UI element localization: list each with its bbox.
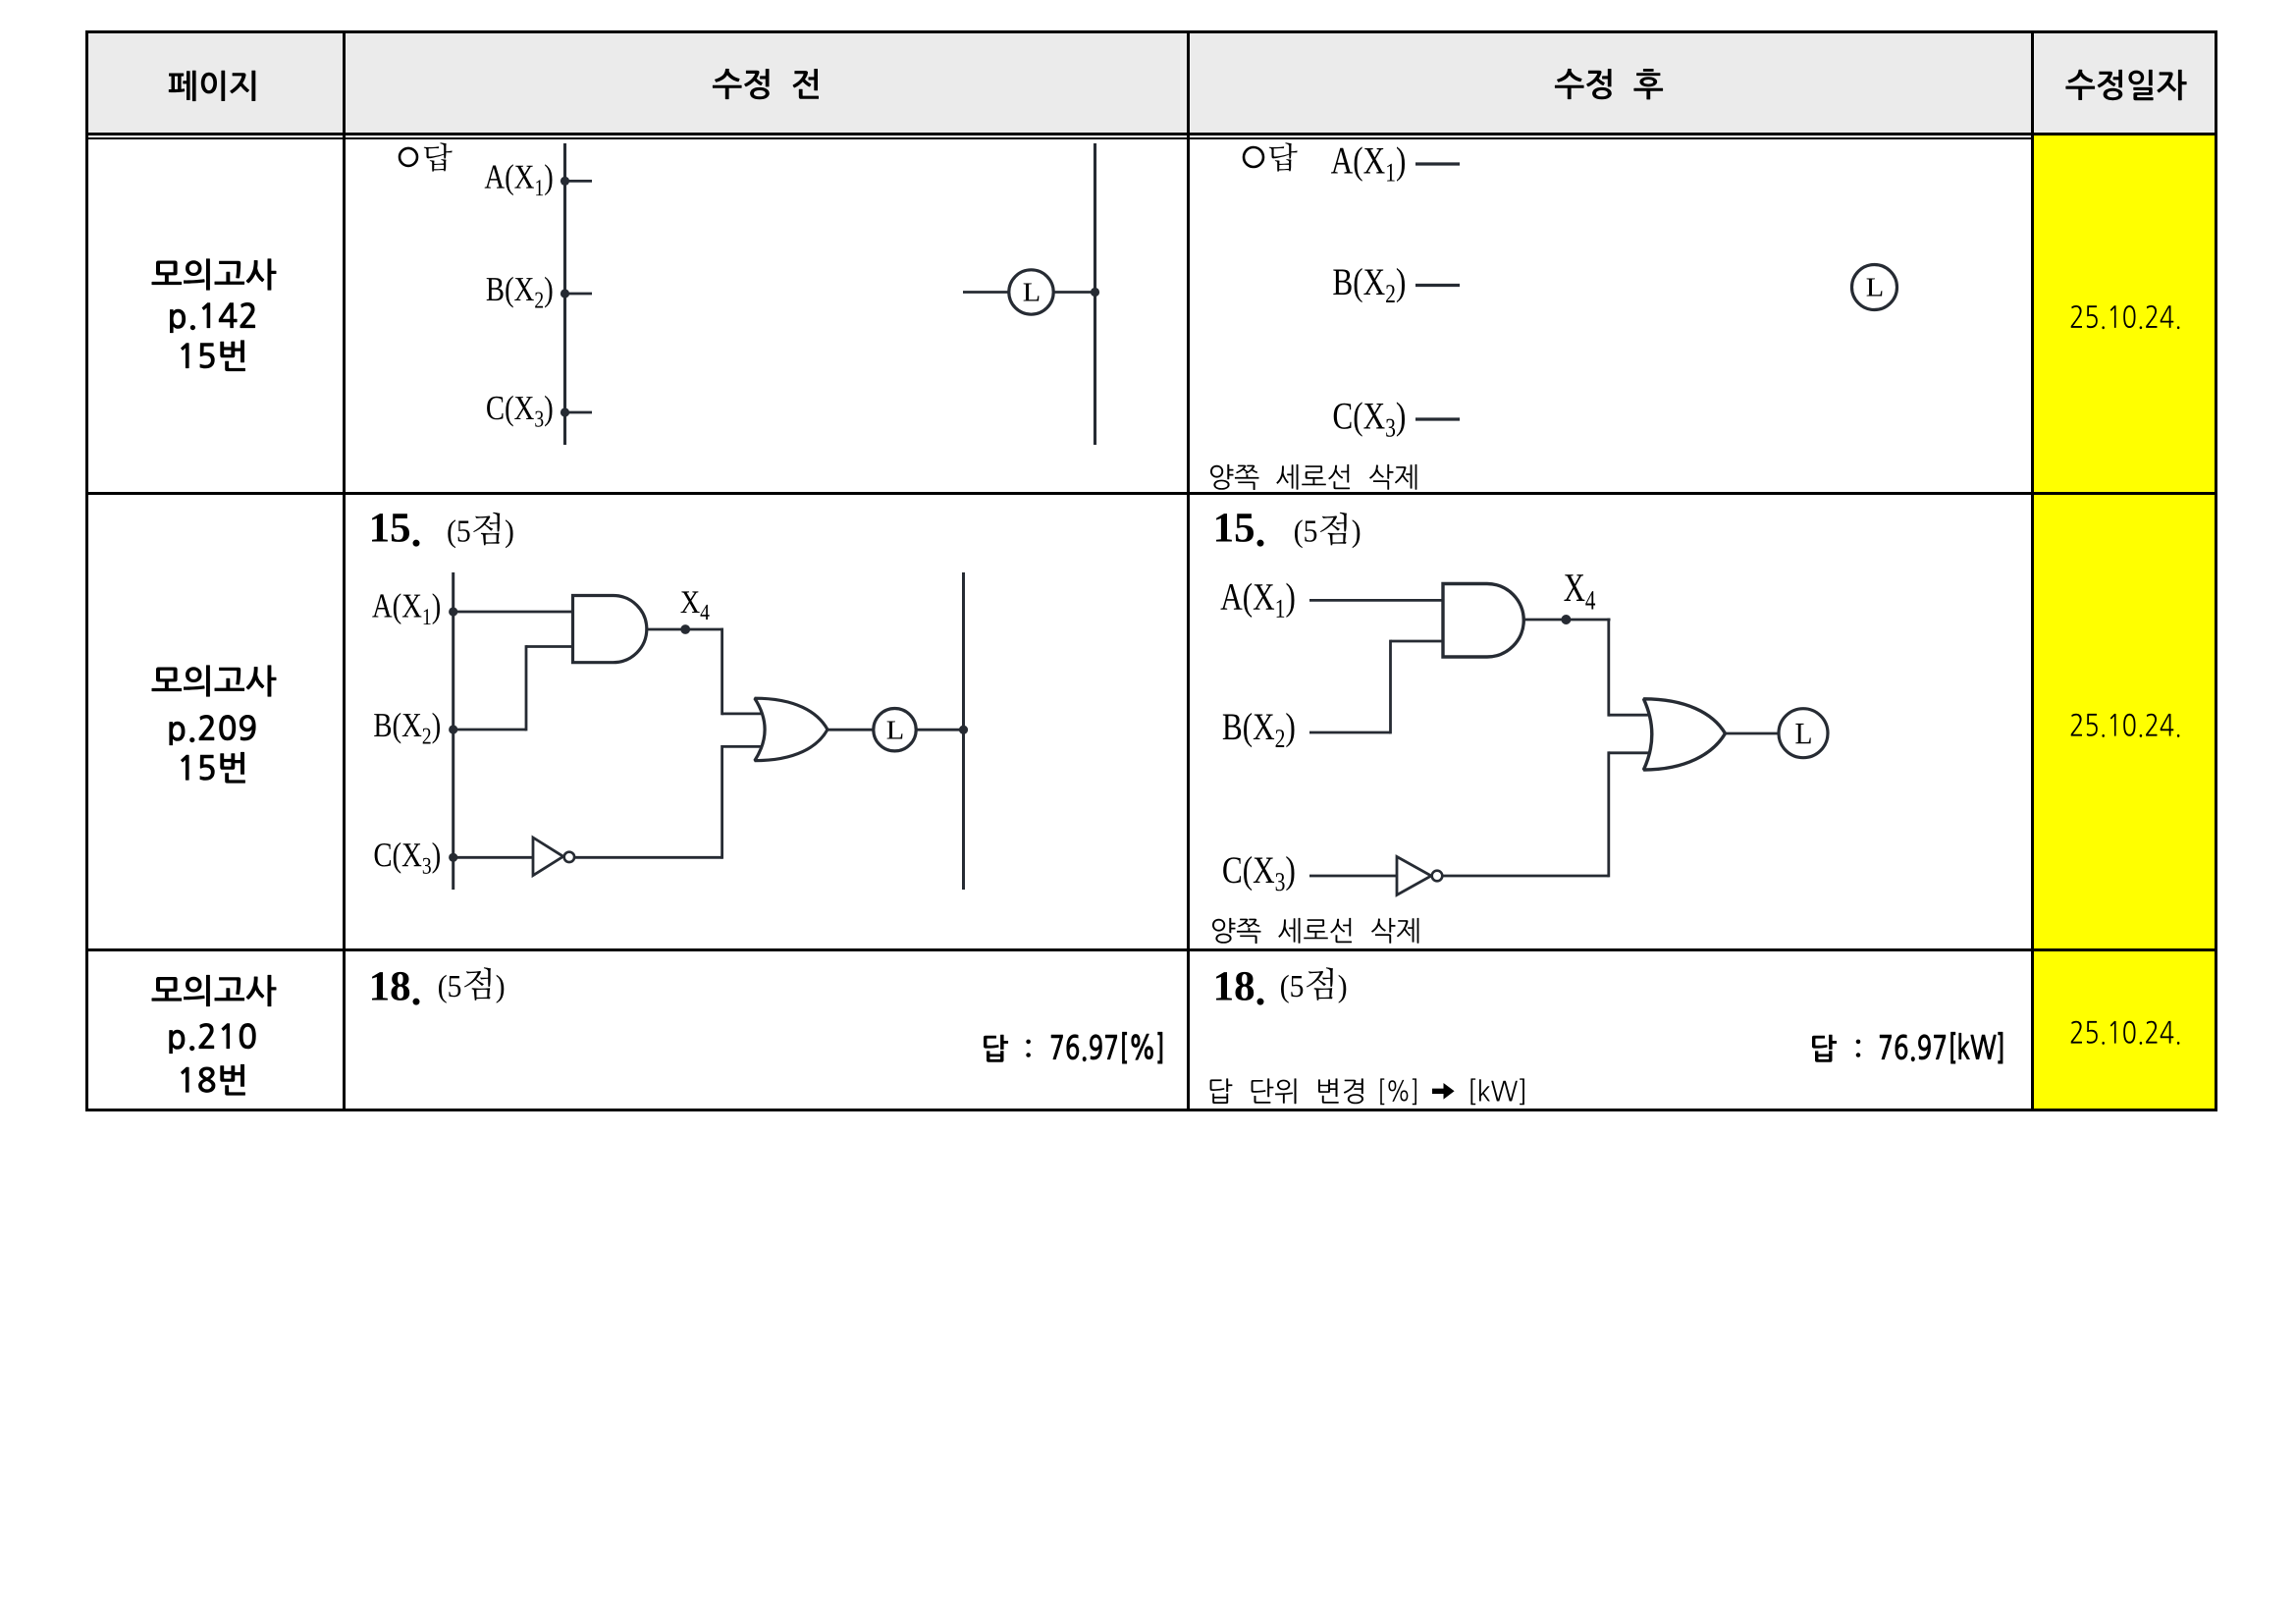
AND gate U1: [573, 596, 647, 663]
table bottom border: [85, 1109, 2217, 1111]
input label A(X1): [1221, 583, 1295, 618]
input label B(X2): [1333, 268, 1405, 302]
junction dot at right bus: [959, 726, 968, 734]
correction date 25.10.24.: [2071, 714, 2180, 737]
input label C(X3): [375, 842, 440, 874]
node C(X3) junction dot: [449, 853, 457, 862]
correction date 25.10.24.: [2071, 1021, 2180, 1045]
lamp letter L: [887, 722, 903, 739]
input label A(X1): [1331, 146, 1405, 181]
node X4 junction dot: [1561, 615, 1571, 624]
wire OR output to lamp: [1726, 732, 1780, 735]
note unit [%]: [1380, 1078, 1416, 1105]
header fill: [85, 30, 2217, 133]
header bottom double line b: [85, 137, 2034, 139]
contact label B(X2): [487, 277, 553, 308]
answer value 76.97[%]: [1051, 1032, 1163, 1064]
wire B vertical riser: [1389, 640, 1392, 734]
right bus line: [962, 572, 965, 890]
row label 모의고사: [152, 975, 277, 1006]
NOT gate U3: [1397, 857, 1431, 895]
lamp L circle: [1852, 265, 1897, 310]
OR gate U2: [755, 698, 828, 761]
wire B(X2) dash: [1415, 284, 1460, 287]
column divider 2: [1187, 30, 1190, 1109]
wire B vertical riser: [525, 645, 528, 731]
wire OR bottom input stub: [722, 745, 763, 748]
lamp letter L: [1795, 724, 1810, 743]
answer bullet text 답: [424, 142, 453, 172]
wire OR bottom input stub: [1609, 751, 1650, 754]
wire lamp right: [1052, 291, 1094, 294]
wire AND output: [1523, 619, 1568, 622]
wire contact B stub: [565, 293, 593, 296]
node C(X3) junction dot: [561, 407, 569, 416]
wire B horizontal: [454, 729, 526, 731]
lamp L circle: [1009, 270, 1053, 314]
wire riser NOT to OR bottom input: [721, 745, 723, 859]
problem number 18.: [372, 972, 420, 1005]
note 양쪽 세로선 삭제: [1212, 918, 1418, 944]
wire X4 drop to OR top input: [721, 628, 723, 716]
right bus line: [1094, 143, 1096, 445]
note 답 단위 변경: [1210, 1078, 1363, 1104]
column divider 3: [2031, 30, 2034, 1109]
row label 모의고사: [152, 258, 277, 290]
wire OR output to lamp: [828, 729, 875, 731]
row divider 1: [85, 492, 2217, 495]
header label 수정일자: [2065, 70, 2186, 100]
header label 수정 후: [1555, 69, 1663, 100]
problem number 15.: [1216, 514, 1264, 547]
OR gate U2: [1643, 699, 1725, 770]
answer value 76.97[kW]: [1880, 1032, 2003, 1064]
header bottom double line a: [85, 133, 2217, 135]
wire X4 to corner: [685, 628, 723, 631]
row label 모의고사: [152, 665, 277, 696]
wire C to NOT U3: [454, 856, 534, 859]
problem number 18.: [1216, 972, 1264, 1005]
node X4 junction dot: [680, 624, 690, 634]
wire X4 to corner: [1566, 619, 1610, 622]
node B(X2) junction dot: [561, 289, 569, 298]
row label p.209: [169, 715, 255, 745]
table right border: [2215, 30, 2217, 1111]
wire contact A stub: [565, 180, 593, 183]
input label C(X3): [1223, 856, 1294, 891]
answer colon: [1026, 1040, 1031, 1057]
contact label C(X3): [487, 396, 552, 427]
problem number 15.: [372, 514, 420, 547]
answer colon: [1856, 1040, 1861, 1057]
input label B(X2): [1223, 713, 1295, 747]
wire B into AND U1: [1391, 640, 1445, 643]
node label X4: [681, 591, 710, 620]
wire X4 drop to OR top input: [1607, 619, 1610, 717]
wire lamp left: [963, 291, 1010, 294]
lamp letter L: [1867, 279, 1883, 297]
wire OR top input stub: [1609, 714, 1650, 717]
header label 페이지: [169, 71, 255, 101]
points (5점): [448, 513, 512, 549]
table top border: [85, 30, 2217, 33]
answer 답: [984, 1035, 1008, 1062]
wire contact C stub: [565, 411, 593, 414]
lamp L circle: [1779, 709, 1828, 758]
wire AND output: [647, 628, 687, 631]
node B(X2) junction dot: [449, 725, 457, 733]
row label 15번: [181, 752, 245, 784]
wire OR top input stub: [722, 713, 764, 716]
lamp L circle: [874, 709, 916, 751]
row label 18번: [181, 1064, 245, 1096]
points (5점): [1281, 967, 1346, 1003]
answer bullet circle: [1244, 147, 1263, 167]
answer bullet circle: [400, 148, 417, 166]
row label 15번: [181, 340, 245, 371]
node A(X1) junction dot: [449, 607, 457, 616]
contact label A(X1): [485, 164, 553, 195]
wire riser NOT to OR bottom input: [1607, 751, 1610, 877]
NOT bubble: [564, 852, 574, 862]
correction date 25.10.24.: [2071, 305, 2180, 329]
wire NOT output: [574, 856, 722, 859]
wire C(X3) dash: [1415, 417, 1460, 420]
points (5점): [439, 967, 504, 1003]
yellow cell r3: [2032, 949, 2216, 1110]
change arrow: [1432, 1083, 1455, 1100]
column divider 1: [343, 30, 346, 1109]
points (5점): [1295, 513, 1360, 549]
yellow cell r2: [2032, 492, 2216, 949]
left bus line: [563, 143, 566, 445]
wire A input: [1309, 599, 1444, 602]
wire B input: [1309, 731, 1391, 734]
node A(X1) junction dot: [561, 177, 569, 186]
NOT gate U3: [533, 838, 563, 876]
wire A to AND U1: [454, 611, 573, 614]
AND gate U1: [1443, 584, 1523, 658]
wire B into AND U1: [526, 645, 573, 648]
wire A(X1) dash: [1415, 162, 1460, 165]
row divider 2: [85, 948, 2217, 951]
answer 답: [1812, 1035, 1837, 1062]
row label p.210: [169, 1023, 255, 1054]
node label X4: [1564, 574, 1595, 609]
input label A(X1): [372, 593, 440, 624]
note 양쪽 세로선 삭제: [1210, 464, 1416, 490]
left bus line: [452, 572, 454, 890]
answer bullet text 답: [1269, 142, 1298, 172]
wire lamp to right bus: [915, 729, 962, 731]
NOT bubble: [1432, 871, 1443, 882]
wire NOT output: [1442, 875, 1609, 878]
lamp letter L: [1024, 284, 1040, 301]
note unit [kW]: [1470, 1078, 1524, 1105]
wire C input: [1309, 875, 1398, 878]
table left border: [85, 30, 88, 1111]
header label 수정 전: [713, 69, 819, 99]
row label p.142: [170, 302, 255, 333]
junction dot at right bus: [1091, 288, 1099, 297]
input label B(X2): [374, 713, 440, 744]
yellow cell r1: [2032, 135, 2216, 492]
input label C(X3): [1334, 402, 1405, 436]
